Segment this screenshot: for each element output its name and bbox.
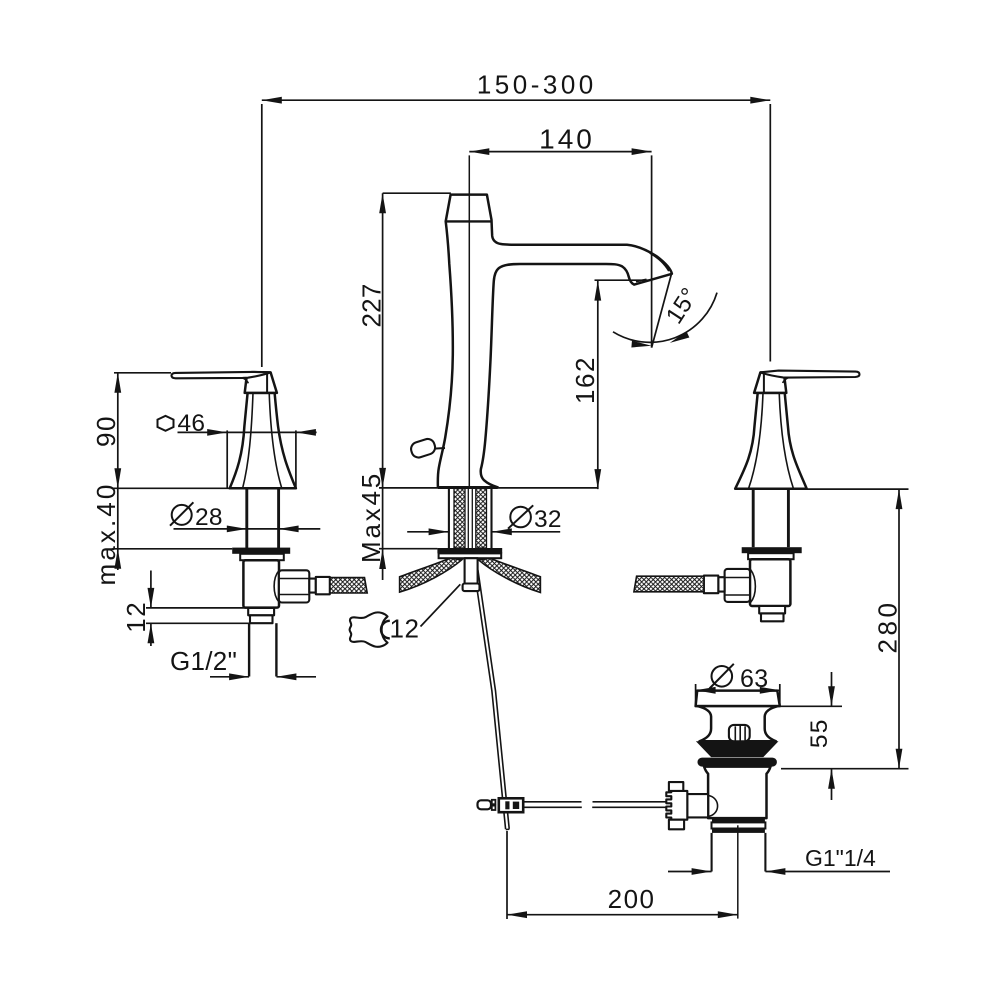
- svg-text:162: 162: [570, 356, 600, 404]
- svg-text:280: 280: [873, 600, 903, 654]
- svg-text:G1"1/4: G1"1/4: [805, 845, 876, 871]
- svg-text:G1/2": G1/2": [170, 646, 237, 676]
- svg-text:12: 12: [121, 601, 151, 633]
- svg-text:227: 227: [357, 284, 387, 328]
- svg-text:max.40: max.40: [91, 482, 121, 586]
- svg-text:55: 55: [806, 718, 833, 748]
- svg-text:90: 90: [91, 415, 121, 447]
- svg-text:32: 32: [534, 506, 562, 533]
- svg-text:28: 28: [195, 504, 223, 531]
- svg-text:150-300: 150-300: [477, 70, 597, 100]
- svg-text:200: 200: [608, 884, 656, 914]
- svg-text:140: 140: [539, 124, 595, 155]
- svg-text:Max45: Max45: [356, 471, 386, 563]
- svg-text:12: 12: [390, 614, 420, 644]
